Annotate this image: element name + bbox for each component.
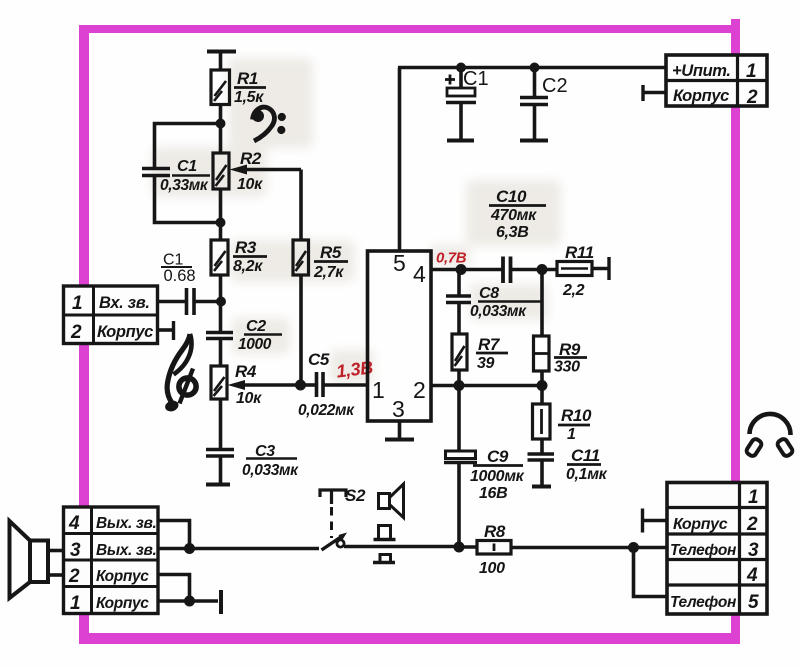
svg-text:2: 2 <box>746 87 758 108</box>
wire pin4 node to C10 <box>461 268 503 272</box>
capacitor C8 0,033mk <box>446 270 471 335</box>
svg-text:R8: R8 <box>484 522 506 541</box>
svg-text:330: 330 <box>554 359 580 376</box>
svg-text:C1: C1 <box>177 158 197 175</box>
svg-text:1000мк: 1000мк <box>470 468 525 485</box>
connector +U labels <box>672 61 758 108</box>
svg-text:0,033мк: 0,033мк <box>242 462 299 479</box>
svg-text:1: 1 <box>746 61 756 82</box>
label C9 1000mk 16V <box>470 447 525 502</box>
U1 pin3 ground <box>385 421 414 440</box>
label C2 (power) <box>542 75 568 97</box>
wire C5 to IC pin 1 <box>323 383 368 387</box>
label R9 330 <box>554 340 581 376</box>
wire X1 pin1 to input cap <box>158 300 186 304</box>
svg-text:R10: R10 <box>561 406 592 425</box>
wire R7 to pin2 rail <box>457 370 461 386</box>
resistor R9 330 <box>534 336 550 371</box>
label C8 0,033mk <box>470 285 527 320</box>
wire R4 to C3 <box>219 399 223 449</box>
svg-text:5: 5 <box>393 250 406 276</box>
svg-text:Корпус: Корпус <box>673 87 729 105</box>
svg-text:2: 2 <box>68 566 80 587</box>
resistor R10 1 <box>533 386 551 440</box>
capacitor C3 0,033mk <box>206 450 234 484</box>
connector X3 output box <box>667 483 767 615</box>
label R11 2,2 <box>562 243 594 299</box>
label R4 10k <box>235 362 262 407</box>
loudspeaker icon <box>10 521 49 598</box>
node dot R7/C9 <box>454 380 465 391</box>
label C11 0,1mk <box>566 446 608 483</box>
wire node to X3 pin3 <box>634 546 668 550</box>
wire node to X3 pin5 <box>634 548 668 597</box>
resistor R11 2,2 <box>557 262 592 276</box>
ground stub of +U pin 2 <box>643 85 666 101</box>
connector X2 pin labels <box>68 513 156 614</box>
small telephone symbol lower <box>373 555 395 563</box>
wire R8 to output node <box>511 546 634 550</box>
wire X2 pin4 <box>158 521 190 549</box>
svg-text:0,33мк: 0,33мк <box>160 177 209 194</box>
svg-text:2: 2 <box>746 514 758 535</box>
ground bar below C2 <box>520 139 548 143</box>
capacitor C5 0,022mk <box>317 372 324 397</box>
resistor R3 8,2k <box>211 240 228 275</box>
label C3 0,033mk <box>242 443 299 479</box>
svg-text:2: 2 <box>70 322 82 343</box>
wire R3 to input node <box>219 275 223 333</box>
svg-text:8,2к: 8,2к <box>233 258 263 275</box>
wire U1 pin4 <box>431 268 461 272</box>
small telephone symbol (S2 position b) <box>374 526 396 540</box>
svg-text:Телефон: Телефон <box>670 542 737 559</box>
label R5 2,7k <box>313 243 344 281</box>
capacitor C2 1000 <box>206 333 233 367</box>
headphones icon <box>745 414 794 457</box>
capacitor C1 electrolytic (power) <box>445 68 476 140</box>
ground bar X2 <box>219 590 223 614</box>
connector X2 speaker box <box>64 507 159 614</box>
svg-text:6,3В: 6,3В <box>496 224 528 241</box>
wire C10 to R11 node <box>511 268 558 272</box>
switch S2 dashed link <box>330 507 333 538</box>
power rail wire to +U connector <box>398 66 666 70</box>
terminal post after R11 <box>592 257 609 280</box>
svg-text:R1: R1 <box>237 69 258 88</box>
svg-text:1: 1 <box>567 426 576 443</box>
treble clef symbol <box>164 334 196 413</box>
capacitor C2 (power) <box>520 68 548 140</box>
resistor R5 2,7k <box>293 240 309 275</box>
node dot output <box>184 543 195 554</box>
terminal post above R1 <box>207 52 236 71</box>
svg-text:R5: R5 <box>320 243 342 262</box>
svg-text:C1: C1 <box>463 68 489 90</box>
label C5 0,022mk <box>298 350 355 419</box>
svg-text:1: 1 <box>748 487 758 508</box>
svg-text:1: 1 <box>72 293 82 314</box>
R4 wiper arrow wire <box>228 380 301 390</box>
wire R1 to node <box>219 105 223 154</box>
label C2 1000 <box>238 318 272 353</box>
svg-text:Телефон: Телефон <box>670 594 737 611</box>
wire X2 pin3 <box>158 547 190 551</box>
svg-text:Корпус: Корпус <box>673 516 728 533</box>
op-amp U1 (amplifier IC) <box>368 251 432 421</box>
svg-text:5: 5 <box>748 592 759 613</box>
svg-text:0,1мк: 0,1мк <box>566 466 608 483</box>
node dot output jack <box>628 542 639 553</box>
svg-text:C9: C9 <box>487 447 509 466</box>
svg-text:10к: 10к <box>237 176 263 193</box>
R2 wiper arrow wire <box>230 165 302 175</box>
capacitor C10 470mk 6,3V <box>503 257 511 284</box>
wire R5 to mid node <box>299 275 303 385</box>
svg-text:Вых. зв.: Вых. зв. <box>96 515 156 532</box>
switch S2 plug contact <box>320 490 346 504</box>
capacitor C9 1000mk 16V electrolytic <box>444 386 477 548</box>
red annotation 1,3V <box>335 357 374 381</box>
node dot R2/R3/C1-loop <box>216 218 226 228</box>
wires speaker to X2 <box>48 551 64 576</box>
label R10 1 <box>561 406 592 443</box>
U1 pin numbers <box>372 250 426 422</box>
ground bar below C3 <box>206 483 230 487</box>
node dot pin4 <box>456 264 467 275</box>
svg-text:C8: C8 <box>479 285 499 302</box>
ground bar below C11 <box>532 485 551 489</box>
svg-text:16В: 16В <box>479 485 507 502</box>
svg-text:4: 4 <box>68 513 80 534</box>
potentiometer R4 10k <box>211 366 227 399</box>
ground stub of X1 pin 2 <box>158 321 174 340</box>
label C1 (power) <box>463 68 489 90</box>
svg-text:0,022мк: 0,022мк <box>298 402 355 419</box>
svg-text:4: 4 <box>413 261 426 287</box>
node dot C9/R8 <box>454 542 465 553</box>
node dot R9/R10 <box>537 380 548 391</box>
svg-text:Корпус: Корпус <box>96 568 149 585</box>
svg-text:4: 4 <box>746 565 758 586</box>
typed label C1 0.68 <box>163 252 196 286</box>
node dot R1/R2/C1-loop <box>216 119 226 129</box>
svg-text:R11: R11 <box>565 243 594 262</box>
switch S2 blade and contact <box>322 533 348 551</box>
svg-text:Корпус: Корпус <box>97 323 153 341</box>
svg-text:Вых. зв.: Вых. зв. <box>96 542 156 559</box>
connector X3 pin labels <box>670 487 759 613</box>
wire U1 pin2 rail <box>431 384 542 388</box>
svg-text:3: 3 <box>748 540 759 561</box>
wire X2 pin2 <box>158 575 190 602</box>
svg-text:R4: R4 <box>235 362 257 381</box>
svg-text:2: 2 <box>413 377 426 403</box>
svg-text:1000: 1000 <box>238 336 272 353</box>
svg-text:39: 39 <box>477 355 495 372</box>
resistor R8 100 <box>477 541 511 555</box>
svg-text:470мк: 470мк <box>490 207 537 224</box>
potentiometer R2 10k <box>213 153 229 189</box>
resistor R7 39 <box>452 334 467 370</box>
connector X1 input box <box>64 286 158 344</box>
svg-text:2,2: 2,2 <box>562 282 585 299</box>
resistor R1 1,5k <box>211 70 230 105</box>
svg-text:0.68: 0.68 <box>164 267 196 285</box>
svg-text:C11: C11 <box>571 446 600 465</box>
node dot input <box>216 297 226 307</box>
ground bar below C1 <box>447 139 474 143</box>
red annotation 0,7V <box>436 250 467 267</box>
svg-text:0,033мк: 0,033мк <box>470 303 527 320</box>
svg-text:1: 1 <box>372 377 385 403</box>
wire R9 to pin2 rail <box>540 371 544 386</box>
svg-text:C5: C5 <box>308 350 330 369</box>
svg-text:C2: C2 <box>542 75 568 97</box>
svg-text:Корпус: Корпус <box>96 595 149 612</box>
small speaker symbol (S2 position a) <box>379 484 404 518</box>
capacitor C1 0.68 (typed label) <box>187 288 222 315</box>
wire output to switch S2 <box>190 547 320 551</box>
node dot power rail C2 <box>530 63 540 73</box>
label S2 <box>345 486 366 505</box>
capacitor C1 0,33mk bypass loop <box>142 124 221 223</box>
label R7 39 <box>477 335 501 372</box>
svg-text:3: 3 <box>392 396 405 422</box>
svg-text:3: 3 <box>70 540 81 561</box>
label R3 8,2k <box>233 238 263 275</box>
capacitor C11 0,1mk <box>528 439 555 485</box>
vertical wire R2 wiper to R5 <box>299 170 303 241</box>
svg-text:+Uпит.: +Uпит. <box>672 62 731 80</box>
wire switch to C9 node <box>344 545 459 549</box>
svg-text:C10: C10 <box>496 187 527 206</box>
svg-text:2,7к: 2,7к <box>313 264 344 281</box>
svg-text:Вх. зв.: Вх. зв. <box>99 294 150 312</box>
node dot C10/R9 <box>537 264 548 275</box>
node dot power rail C1 <box>456 63 466 73</box>
svg-text:10к: 10к <box>236 390 262 407</box>
wire node to C5 <box>301 383 317 387</box>
svg-text:C1: C1 <box>163 252 184 269</box>
svg-text:R3: R3 <box>235 238 257 257</box>
wire node to R8 <box>459 545 477 549</box>
wire X2 pin1 to ground <box>158 599 218 603</box>
node dot mid (R4 wiper / R5 / C5) <box>295 380 306 391</box>
svg-text:1,5к: 1,5к <box>234 89 264 106</box>
svg-text:S2: S2 <box>345 486 366 505</box>
label C10 470mk 6,3V <box>490 187 537 241</box>
wire U1 pin5 riser to power rail <box>398 68 402 252</box>
svg-text:100: 100 <box>479 560 505 577</box>
svg-text:C2: C2 <box>246 318 266 335</box>
svg-text:1: 1 <box>70 593 80 614</box>
bass clef symbol <box>252 107 286 141</box>
connector X1 pin labels <box>70 293 153 343</box>
label R1 1,5k <box>234 69 264 106</box>
svg-text:R7: R7 <box>478 335 501 354</box>
label C1 0,33mk <box>160 158 209 194</box>
svg-text:R2: R2 <box>240 149 262 168</box>
wire R2 to node <box>219 189 223 240</box>
node dot X2 ground <box>184 596 195 607</box>
ground stub of X3 pin2 <box>643 509 668 533</box>
wire R9 riser <box>540 270 544 337</box>
label R8 100 <box>479 522 506 577</box>
svg-text:0,7В: 0,7В <box>436 250 467 267</box>
label R2 10k <box>237 149 263 193</box>
connector +U power box <box>666 55 767 106</box>
